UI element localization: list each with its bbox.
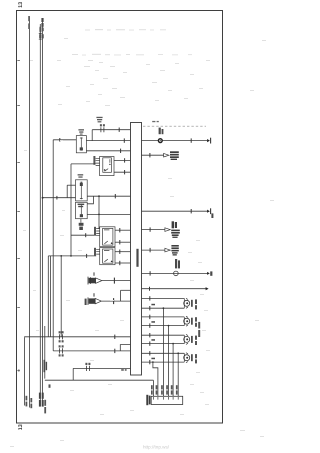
connector tick y=197.7 [56, 196, 58, 200]
label above fuse F1 [78, 129, 84, 134]
connector tick y=140.6 right [190, 138, 192, 142]
ground terminal G2 [207, 208, 211, 214]
wire into relay RY3 y=255.9 [48, 255, 96, 257]
connector hatch left of RY1 [93, 156, 99, 165]
wire B horizontal y=350.9 [53, 350, 130, 352]
wire RY3 out top y=251.7 [115, 251, 130, 253]
bottom label rail 44.8 [44, 400, 46, 414]
drop from L2 bottom x=168.5 [168, 326, 170, 397]
wire from rail to F2 y=197.7 [43, 197, 76, 199]
wire RY1 out top y=160.4 [114, 159, 130, 161]
vertical wire x=53.2 [52, 140, 54, 351]
wire B branch into box y=344.6 [120, 345, 130, 351]
connector tick y=280.6 [113, 278, 115, 284]
wire C lower segment y=380.2 [45, 379, 154, 381]
vertical wire x=61.2 [60, 256, 62, 337]
wire F1 bottom to control box y=150.8 [86, 150, 130, 152]
wire into F2 upper y=185.2 [67, 184, 75, 186]
wire RY2 out bottom y=242.2 [115, 241, 130, 243]
wire C riser x=73.2 [72, 368, 74, 380]
connector tick y=211.2 [190, 209, 192, 213]
in-line connector on wire A [59, 331, 64, 342]
frame tick mark y60.5 [17, 60, 20, 62]
frame tick mark y211.5 [17, 211, 20, 213]
connector tick y=288.7 [149, 287, 151, 291]
fuse F3 [76, 202, 88, 218]
small label above L2 tick [151, 321, 155, 323]
vertical wire x=48.3 [47, 256, 49, 337]
lamp L3 [184, 334, 193, 344]
lamp L1 [184, 298, 193, 308]
label above relay RY1 [96, 117, 102, 123]
in-line connector on wire C [85, 363, 90, 371]
connector hatch left of RY2 [94, 227, 100, 236]
frame tick mark y105.5 [17, 105, 20, 107]
wire from P1 y=280.6 [102, 280, 130, 282]
connector strip CN1 [151, 396, 183, 404]
lamp L3 bottom wire y=343.6 [142, 343, 185, 345]
connector pair on rails 2-3 (lower) [39, 33, 44, 39]
label above circle y=140.6 [159, 128, 164, 135]
wire U1 right y=229.6 to arrow A2 [142, 229, 165, 231]
connector tick y=230.2 [119, 228, 121, 232]
label above fuse F2 [78, 174, 84, 178]
connector tick y=235.2 [85, 233, 87, 237]
arrow A2 [165, 228, 170, 232]
riser x=67.2 [66, 185, 68, 198]
wire rail 2 (x=40.3) [39, 24, 41, 407]
connector tick y=160.4 [124, 158, 126, 162]
destination label block for A2 [171, 221, 180, 238]
connector tick L3 bottom [149, 341, 151, 345]
junction dot x=99 on y=196.2 [98, 195, 100, 197]
connector tick y=263 [119, 261, 121, 265]
junction dot L4 drop [177, 352, 179, 354]
vertical wire x=50.4 [49, 256, 51, 337]
lamp L4 top wire y=353.3 [142, 352, 185, 354]
page number 13 bottom-left [18, 424, 24, 430]
connector tick near box y=129.7 [118, 128, 120, 132]
connector tick L2 bottom [149, 323, 151, 327]
svg-text:http://tnp.ws/: http://tnp.ws/ [143, 445, 170, 450]
connector tick y=255.9 [86, 254, 88, 258]
in-line connector on wire B [59, 345, 64, 356]
connector tick y=242.2 [119, 240, 121, 244]
scan speckle noise [10, 29, 274, 447]
arrow A1 [164, 153, 169, 157]
destination label block for A1 [170, 151, 179, 160]
jog from F3 top right [87, 196, 93, 204]
wire RY2 out top y=230.2 [115, 229, 130, 231]
wire rail 3 (x=42.6) [42, 18, 44, 407]
connector plug P2 (hatched block with arrow) [85, 293, 102, 305]
connector tick L2 top [149, 315, 151, 319]
bottom label rail 29.5 [30, 398, 32, 408]
connector tick L1 bottom [149, 306, 151, 310]
destination label block for A3 [171, 245, 178, 256]
junction dot L3 drop [172, 343, 174, 345]
vertical wire x=71 (relay feed) [70, 164, 72, 256]
connector tick y=196.2 [114, 194, 116, 198]
label rails 2-3 top wire colors [41, 18, 43, 27]
wire U1 right y=250.1 to arrow A3 [142, 249, 165, 251]
connector tick y=273.4 [149, 271, 151, 275]
stub below F3 [80, 219, 82, 223]
jog from lamp L4 bottom to strip pin2 [153, 362, 158, 396]
label inside U1 (vertical text) [136, 249, 138, 267]
svg-text:13: 13 [18, 424, 24, 430]
wire U1 right y=140.6 to ground [142, 140, 208, 142]
wire into RY1 y=163.9 [71, 163, 96, 165]
label at end of y=273.4 [210, 271, 212, 275]
wire into relay RY2 y=235.2 [71, 234, 96, 236]
label lamp L1 [195, 299, 197, 309]
wire A horizontal y=336.8 [25, 336, 131, 339]
wire into fuse F1 y=139.8 [53, 139, 76, 141]
junction dot L4 jog [152, 361, 154, 363]
small label above L1 tick [151, 304, 155, 306]
wire color label on x=44.8 vertical [44, 360, 48, 372]
junction dot x=99 on y=214.4 [98, 214, 100, 216]
in-line connector on y=129.7 wire [100, 124, 105, 132]
label rail1 top wire color [28, 16, 30, 29]
dashed option wire top right of U1 [143, 125, 206, 127]
lamp L2 top wire y=316.9 [142, 316, 185, 318]
svg-text:13: 13 [18, 2, 24, 8]
end arrow y=273.4 [207, 272, 210, 275]
wire F3 out y=214.4 [87, 213, 130, 215]
lamp L1 bottom wire y=308.2 [142, 307, 185, 309]
label lamp group (long vertical) [198, 322, 200, 337]
connector tick y=251.7 [119, 250, 121, 254]
wire U1 right y=273.4 to ground [142, 272, 208, 274]
connector tick near box y=150.8 [120, 149, 122, 153]
wire from P2 y=301.1 [102, 300, 131, 302]
connector tick L3 top [149, 333, 151, 337]
connector tick y=172.2 [124, 170, 126, 174]
branch riser x=120.6 up [120, 290, 122, 301]
frame tick mark y162.5 [17, 162, 20, 164]
label above dashed wire [152, 121, 159, 122]
lamp L2 [184, 316, 193, 326]
wire RY1 out bottom y=172.2 [114, 171, 130, 173]
lamp L4 [184, 353, 193, 363]
branch wire into box y=290.3 [121, 289, 131, 291]
wire U1 right y=288.7 long [142, 288, 206, 290]
wire RY3 out bottom y=263 [115, 262, 130, 264]
connector tick near box y=140.6 [123, 138, 125, 142]
vertical x=99 [98, 196, 100, 228]
label small b near bottom left [49, 384, 51, 387]
relay RY3 [100, 248, 115, 265]
connector hatch left of RY3 [94, 248, 100, 256]
connector tick on F1 input [59, 138, 61, 142]
wire U1 right y=211.2 to ground [142, 210, 208, 212]
drop from L3 bottom x=173.1 [172, 344, 174, 397]
wire rail 1 (x=29.5) [29, 17, 31, 408]
riser from F1 output [91, 130, 93, 141]
riser to strip pin1 x=153.4 [152, 380, 154, 396]
connector tick L4 bottom [149, 360, 151, 364]
small label above L3 tick [151, 339, 155, 341]
lamp L3 top wire y=335.2 [142, 334, 185, 336]
connector tick L4 top [149, 351, 151, 355]
drop from L1 bottom x=163.4 [162, 308, 164, 396]
end diamond y=288.7 [206, 287, 209, 290]
connector tick wire B near box [114, 349, 116, 353]
label lamp L3 [195, 336, 197, 345]
fuse F2 [76, 180, 88, 201]
junction dot L1 drop [163, 307, 165, 309]
label inside F3 top [78, 204, 85, 208]
wire F2 out y=196.2 [87, 195, 130, 197]
small label above L4 tick [151, 358, 155, 360]
connector pair on rails 2-3 (upper) [39, 27, 44, 32]
frame tick mark y307.5 [17, 307, 20, 309]
label above ring connector [175, 259, 180, 268]
control unit U1 (tall box) [131, 123, 142, 376]
relay RY1 [100, 157, 114, 176]
connector circle with dot on y=140.6 [158, 138, 163, 143]
label below G2 [211, 213, 213, 218]
lamp L2 bottom wire y=325.6 [142, 325, 185, 327]
label left of connector strip [146, 395, 150, 405]
drop from L4 top x=178.2 [177, 353, 179, 396]
wire into control box y=129.7 [92, 129, 130, 131]
frame tick mark y258.5 [17, 258, 20, 260]
wire C upper segment y=368.4 [73, 367, 130, 369]
vertical wire x=44.8 [44, 326, 46, 379]
relay RY2 [100, 227, 115, 247]
lamp L1 top wire y=298.4 [142, 297, 185, 299]
arrow A3 [165, 248, 170, 252]
ground terminal G1 [207, 138, 211, 144]
connector tick y=155.2 [149, 153, 151, 157]
label lamp L4 [195, 354, 197, 363]
connector tick y=229.6 [149, 227, 151, 231]
connector plug P1 (hatched block with arrow) [88, 272, 102, 284]
connector tick y=301.1 [113, 298, 115, 304]
connector tick wire A near box [114, 335, 116, 339]
bottom label rails 40/42 [39, 393, 44, 407]
junction dot L2 drop [168, 325, 170, 327]
junction dot rail/wire [42, 197, 44, 199]
wire color labels above connector strip [151, 385, 178, 394]
bottom label rail 24.6 [26, 396, 28, 407]
connector tick y=250.1 [149, 248, 151, 252]
wire U1 right y=155.2 to arrow A1 [142, 154, 164, 156]
page number 13 top-left [18, 2, 24, 8]
frame tick mark y370.5 [17, 369, 20, 372]
wire from F1 through to control box y=140.6 [86, 140, 130, 142]
connector tick L1 top [149, 296, 151, 300]
connector symbol below F3 [79, 223, 84, 230]
lamp L4 bottom wire y=362.1 [142, 361, 185, 363]
border frame of schematic page [17, 11, 223, 424]
label left of box on wire C [121, 369, 126, 371]
junction dots on y=255.9 [60, 255, 62, 257]
label lamp L2 [195, 317, 197, 327]
wire rail 4 short (x=24.6 from wire A down) [24, 337, 26, 405]
fuse F1 [76, 136, 86, 153]
ring connector on y=273.4 [174, 271, 179, 276]
